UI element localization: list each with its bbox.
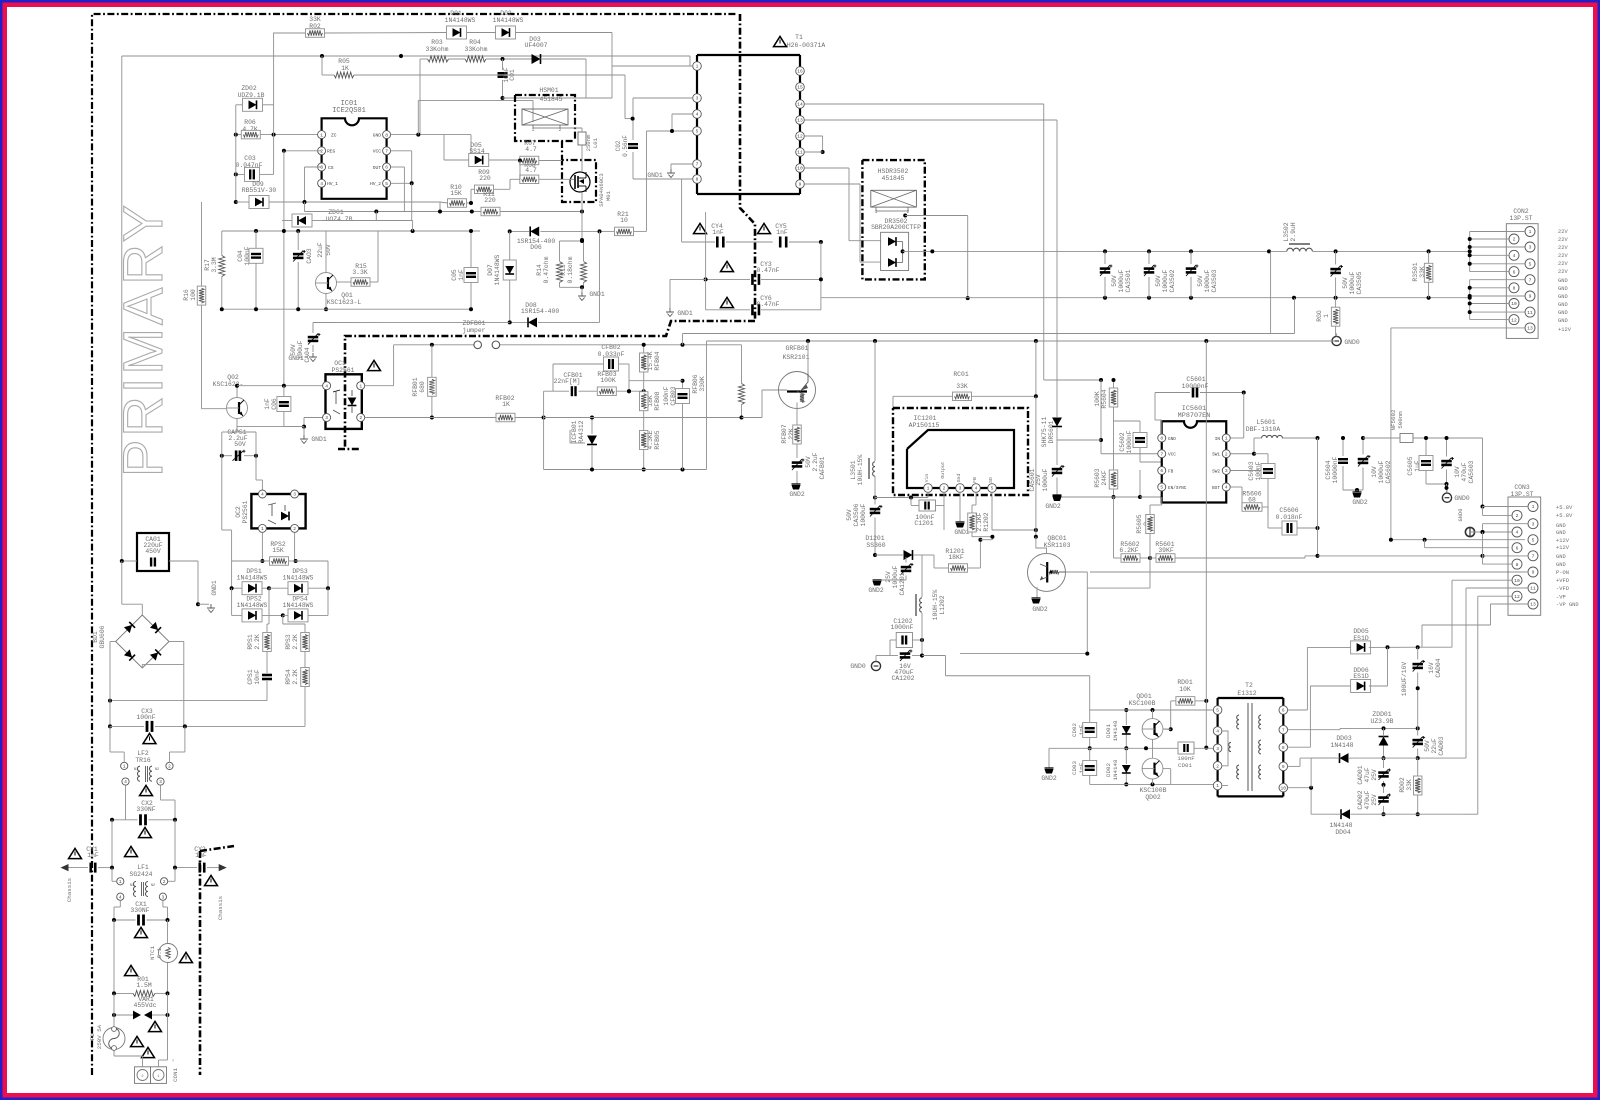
wire bridge right to GND1 (142, 642, 184, 727)
svg-text:Chassis: Chassis (66, 878, 73, 902)
wire bridge output top (122, 561, 143, 615)
ground GND1 near CY3 (666, 279, 706, 317)
svg-text:RFB06: RFB06 (692, 374, 699, 393)
ground GND0 left of CA1202 (850, 656, 890, 671)
wire CON2 GND bus (1468, 280, 1525, 320)
capacitor CAFB01 2.2uF 50V (792, 452, 826, 484)
T1 pin 10 (796, 164, 805, 173)
svg-text:15K: 15K (272, 547, 284, 554)
wire T1 pin4 stub (672, 114, 693, 131)
resistor RFB04 15.4K (639, 343, 661, 382)
chassis dashed line right (200, 846, 234, 1075)
svg-text:3.3K: 3.3K (352, 269, 368, 276)
IC5601 pin 3 SW2 (1212, 467, 1230, 475)
IC01 pin 6 OUT (373, 163, 391, 171)
svg-text:RFB07: RFB07 (781, 424, 788, 443)
svg-text:TR16: TR16 (135, 757, 151, 764)
svg-text:Q01: Q01 (341, 292, 353, 299)
svg-text:1: 1 (359, 383, 362, 389)
capacitor C5605 1uF (1407, 436, 1433, 484)
svg-text:451845: 451845 (881, 175, 904, 182)
svg-text:4: 4 (119, 894, 122, 900)
svg-text:GBU606: GBU606 (99, 625, 106, 648)
T1 pin 15 (796, 83, 805, 92)
T1 pin 9 (796, 180, 805, 189)
svg-text:CAD02: CAD02 (1357, 790, 1364, 809)
wire IC01 pin5 HV_2 (391, 181, 414, 220)
svg-text:1000uF: 1000uF (860, 503, 867, 526)
svg-text:C1201: C1201 (914, 520, 933, 527)
IC5601 pin 5 EN/SYNC (1158, 483, 1187, 491)
IC01 pin 8 GND (373, 131, 391, 139)
svg-text:HV_1: HV_1 (327, 181, 338, 187)
dual diode DR3502 SBR20A200CTFP (871, 218, 932, 271)
svg-text:5: 5 (1216, 708, 1219, 714)
wire B+ vertical x=121.8 (121, 56, 123, 561)
resistor R5603 24K (1094, 421, 1118, 499)
wire +5.8V feed to CON3 (1481, 438, 1485, 509)
svg-text:R05: R05 (338, 58, 350, 65)
resistor R5602 6.2KF (1114, 497, 1153, 562)
svg-text:6.2KF: 6.2KF (1119, 547, 1138, 554)
svg-text:1K: 1K (502, 401, 510, 408)
svg-text:16V: 16V (1428, 662, 1435, 674)
svg-text:5: 5 (385, 181, 388, 187)
wire node y=231 rail (222, 221, 480, 234)
svg-text:R5604: R5604 (1101, 389, 1108, 408)
svg-text:UF4007: UF4007 (524, 42, 547, 49)
diode DD05 ES1D (1351, 628, 1452, 654)
svg-text:10000nF: 10000nF (1182, 383, 1209, 390)
svg-text:C5601: C5601 (1186, 376, 1205, 383)
CON3 pin 3 (1528, 519, 1538, 529)
wire left rail x=235.8 (234, 105, 238, 204)
svg-text:HV_2: HV_2 (370, 181, 381, 187)
svg-text:220: 220 (484, 197, 496, 204)
isolation boundary dashed line (T1 / optocoupler) (338, 14, 755, 449)
CON2 pin 8 (1509, 283, 1519, 293)
svg-text:4: 4 (1225, 485, 1228, 491)
svg-text:R14: R14 (536, 264, 543, 276)
svg-text:CON1: CON1 (172, 1068, 179, 1082)
transistor Q01 KSC1623-L (316, 231, 362, 311)
svg-text:GND1: GND1 (589, 291, 605, 298)
capacitor CA5601 1000uF 25V (1029, 440, 1064, 495)
svg-text:3: 3 (159, 779, 162, 785)
svg-text:ZD01: ZD01 (328, 209, 344, 216)
resistor R1202 2.1KF (968, 492, 993, 536)
svg-text:+12V: +12V (1556, 538, 1570, 544)
svg-text:10V: 10V (1371, 466, 1378, 478)
svg-text:22V: 22V (1558, 237, 1568, 243)
svg-text:CAFB01: CAFB01 (819, 456, 826, 479)
svg-text:1: 1 (1529, 229, 1532, 235)
wire IN pin to C5601 rail (1231, 437, 1244, 439)
svg-text:GND: GND (1558, 318, 1568, 324)
svg-text:REG: REG (327, 149, 336, 155)
svg-text:D07: D07 (487, 264, 494, 276)
wire QBC01 base line (1066, 572, 1088, 588)
svg-text:5: 5 (1532, 537, 1535, 543)
resistor RD02 33K (1399, 758, 1422, 816)
svg-text:HSDR3502: HSDR3502 (878, 168, 909, 175)
capacitor CAD02 470uF 25V (1357, 785, 1391, 816)
svg-text:9: 9 (799, 182, 802, 188)
IC01 pin 5 HV_2 (370, 179, 391, 187)
svg-text:8: 8 (1516, 562, 1519, 568)
wire L1202 output down (922, 656, 1090, 711)
capacitor CA3502 1000uF 50V (1144, 251, 1176, 297)
capacitor C1201 100nF (911, 492, 944, 530)
svg-text:1N4148WS: 1N4148WS (494, 254, 501, 285)
warning triangle below LF2 (140, 785, 153, 795)
capacitor CFB03 100nF (627, 379, 690, 470)
svg-text:100nF: 100nF (136, 714, 155, 721)
svg-text:L3502: L3502 (1283, 222, 1290, 241)
svg-text:GND: GND (1558, 286, 1568, 292)
svg-text:50V: 50V (290, 344, 297, 356)
svg-text:16: 16 (797, 69, 803, 75)
T2 winding coils (1229, 715, 1261, 779)
IC5601 pin 6 FB (1158, 467, 1174, 475)
svg-text:CA04: CA04 (304, 347, 311, 363)
svg-text:12: 12 (1514, 594, 1520, 600)
svg-text:RFB01: RFB01 (412, 377, 419, 396)
resistor R5601 39KF (1150, 541, 1320, 573)
T1 pin 1 (693, 62, 702, 71)
diode D1201 SS360 (865, 535, 922, 560)
capacitor CA01 220uF 450V (120, 533, 200, 606)
capacitor CA5603 470uF 10V (1426, 436, 1475, 493)
CON2 pin 3 (1525, 242, 1535, 252)
wire rail y=341 (707, 339, 1336, 470)
svg-text:CA1202: CA1202 (891, 675, 914, 682)
wire VCC feed from pin14 (1044, 378, 1162, 454)
diode DR5601 SHK75-11 (1041, 414, 1062, 465)
svg-text:GND0: GND0 (1344, 339, 1360, 346)
svg-text:22V: 22V (1558, 253, 1568, 259)
wire bottom rail y=309.2 (220, 307, 473, 311)
zener ZD02 UDZ9.1B (236, 85, 274, 111)
svg-text:4: 4 (975, 486, 978, 492)
svg-text:CD02: CD02 (1071, 723, 1078, 737)
svg-text:7: 7 (1160, 451, 1163, 457)
svg-text:11: 11 (1530, 586, 1536, 592)
svg-text:22V: 22V (1558, 269, 1568, 275)
CON2 pin 2 (1509, 234, 1519, 244)
capacitor CFB02 0.033nF (553, 344, 629, 391)
svg-text:SHK75-11: SHK75-11 (1041, 416, 1048, 447)
IC5601 pin 7 VCC (1158, 450, 1177, 458)
svg-text:CAD04: CAD04 (1435, 658, 1442, 677)
svg-text:CON2: CON2 (1513, 208, 1529, 215)
wire P-ON line (1087, 571, 1525, 573)
svg-text:GND2: GND2 (868, 587, 884, 594)
resistor R05 1K (322, 56, 633, 119)
svg-text:15K: 15K (450, 190, 462, 197)
T2 pin 1 (1213, 781, 1222, 790)
wire rail x=273.6 (273, 33, 275, 175)
capacitor CY5 1nF (758, 223, 823, 298)
svg-text:1: 1 (1225, 436, 1228, 442)
resistor RFB08 18K (639, 382, 661, 420)
diode DPS2 1N4148WS (232, 588, 285, 622)
svg-text:DD05: DD05 (1353, 628, 1369, 635)
svg-text:33K: 33K (956, 383, 968, 390)
T1 pin 7 (693, 160, 702, 169)
resistor RPS4 2.2K (185, 668, 309, 727)
capacitor CA3501 1000uF 50V (1100, 251, 1132, 297)
svg-text:R04: R04 (469, 39, 481, 46)
svg-text:GND0: GND0 (1458, 509, 1464, 522)
transistor QD01 KSC100B (1129, 693, 1163, 739)
svg-text:50V: 50V (805, 456, 812, 468)
regulator IC1201 AP150115 dashed box (893, 408, 1028, 495)
capacitor CFB01 22nF[M] (544, 372, 598, 418)
wire OC2 pin1 down (260, 533, 264, 563)
svg-text:13: 13 (1527, 326, 1533, 332)
T2 pin 4 (1213, 727, 1222, 736)
svg-text:50V: 50V (1342, 277, 1349, 289)
svg-text:C04: C04 (237, 250, 244, 262)
svg-text:4: 4 (320, 181, 323, 187)
svg-text:22V: 22V (1558, 229, 1568, 235)
svg-text:1000nF: 1000nF (890, 624, 913, 631)
inductor L3501 10UH-15% (850, 454, 875, 497)
svg-text:1nF: 1nF (264, 398, 271, 410)
capacitor C01 10nF (498, 59, 517, 100)
svg-text:24KF: 24KF (1101, 470, 1108, 486)
svg-text:R3501: R3501 (1412, 262, 1419, 281)
svg-text:SD: SD (988, 477, 994, 483)
svg-text:VCC: VCC (1168, 453, 1176, 458)
IC5601 pin 2 SW1 (1212, 450, 1230, 458)
svg-text:CA1201: CA1201 (899, 572, 906, 595)
svg-text:10: 10 (620, 217, 628, 224)
resistor RPS1 2.2K (247, 588, 271, 671)
svg-text:10nF: 10nF (254, 669, 261, 685)
svg-text:GND: GND (1558, 302, 1568, 308)
svg-text:-VFD: -VFD (1556, 586, 1569, 592)
svg-text:2: 2 (163, 879, 166, 885)
wire QD top rail y=710 (1090, 708, 1214, 712)
svg-text:1N4148WS: 1N4148WS (283, 575, 314, 582)
svg-text:R13: R13 (560, 264, 567, 276)
svg-text:D02: D02 (500, 10, 512, 17)
wire T1 pin9 to rectifier (804, 184, 880, 262)
svg-text:QBC01: QBC01 (1047, 535, 1066, 542)
diode D08 1SR154-400 (508, 302, 600, 327)
svg-text:SPA04N60C3: SPA04N60C3 (598, 173, 605, 207)
svg-text:2: 2 (1225, 451, 1228, 457)
svg-text:UOZ4.7B: UOZ4.7B (326, 216, 353, 223)
warning triangle left (125, 965, 138, 975)
resistor R16 100 (183, 202, 226, 409)
svg-text:0.018nF: 0.018nF (1276, 514, 1303, 521)
svg-text:Q02: Q02 (227, 374, 239, 381)
svg-text:ZC: ZC (331, 133, 337, 139)
warning triangle below CX2 left (139, 827, 152, 837)
diode D07 1N4148WS (487, 231, 516, 322)
resistor R09 220 (471, 169, 510, 203)
svg-text:MP8707EN: MP8707EN (1178, 412, 1211, 420)
CON3 voltage labels (1556, 505, 1579, 608)
svg-text:RC01: RC01 (953, 371, 969, 378)
T1 pin 13 (796, 116, 805, 125)
svg-text:7: 7 (1282, 727, 1285, 733)
svg-text:0.47nF: 0.47nF (756, 267, 779, 274)
svg-text:GND: GND (1556, 530, 1566, 536)
capacitor CY3 0.47nF (704, 212, 823, 285)
svg-text:455Vdc: 455Vdc (133, 1002, 156, 1009)
svg-text:DBF-1310A: DBF-1310A (1246, 426, 1281, 433)
svg-text:100nF: 100nF (663, 386, 670, 405)
ground GND1 under R13 (578, 287, 605, 300)
wire IC01 pin8 GND line (391, 100, 533, 155)
svg-text:2: 2 (293, 526, 296, 532)
CON3 pin 9 (1528, 567, 1538, 577)
CON3 pin 4 (1512, 527, 1522, 537)
svg-text:450V: 450V (145, 548, 161, 555)
IC01 pin 4 HV_1 (318, 179, 339, 187)
svg-text:33K: 33K (309, 16, 321, 23)
capacitor CA1202 470uF 16V (890, 650, 924, 683)
svg-text:SW1: SW1 (1212, 453, 1220, 458)
svg-text:T2: T2 (1245, 682, 1253, 689)
svg-text:100K: 100K (600, 377, 616, 384)
capacitor C1202 1000nF (890, 618, 924, 658)
svg-text:1N4148WS: 1N4148WS (237, 602, 268, 609)
svg-text:15: 15 (797, 85, 803, 91)
T1 pin 4 (693, 110, 702, 119)
thermistor NTC1 5.1 (149, 944, 192, 994)
T2 pin 9 (1279, 762, 1288, 771)
MOSFET M01 symbol (570, 172, 590, 192)
svg-text:2: 2 (943, 486, 946, 492)
svg-text:GND: GND (1556, 562, 1566, 568)
svg-text:50V: 50V (1155, 275, 1162, 287)
diode D09 RB551V-30 (236, 181, 440, 212)
IC1201 inner outline (907, 430, 1014, 488)
svg-text:L1202: L1202 (939, 595, 946, 614)
svg-text:SBR20A200CTFP: SBR20A200CTFP (871, 224, 921, 231)
CON3 pin 5 (1528, 535, 1538, 545)
CON2 pin 13 (1525, 323, 1535, 333)
wire QD mid rail y=748.3 (1090, 746, 1214, 750)
svg-text:1N4148: 1N4148 (1112, 720, 1119, 741)
CON2 voltage labels (1558, 229, 1572, 333)
wire CON2 +12V pin13 (1391, 328, 1525, 540)
resistor R14 0.47ohm (536, 241, 582, 287)
line filter LF1 SG2424 (112, 864, 175, 920)
svg-text:1: 1 (1323, 314, 1330, 318)
T2 pin 7 (1279, 725, 1288, 734)
resistor R5606 68 (1231, 487, 1269, 517)
resistor R1201 18KF (922, 535, 994, 573)
svg-text:GND2: GND2 (1352, 499, 1368, 506)
ground GND0 near CON3 (1442, 486, 1469, 502)
resistor RPS2 15K (232, 541, 328, 588)
svg-text:KSR1103: KSR1103 (1044, 542, 1071, 549)
diode DD04 1N4148 (1329, 809, 1463, 836)
svg-text:SG2424: SG2424 (129, 871, 152, 878)
resistor R07 4.7 (518, 140, 562, 165)
svg-text:R03: R03 (431, 39, 443, 46)
wire T1 pin1 feed (612, 65, 693, 67)
svg-text:GND1: GND1 (311, 436, 327, 443)
svg-text:D1201: D1201 (865, 535, 884, 542)
CON3 pin 2 (1512, 510, 1522, 520)
svg-text:13: 13 (797, 118, 803, 124)
IC01 pin 1 ZC (318, 131, 337, 139)
svg-text:330NF: 330NF (136, 806, 155, 813)
capacitor CA03 22uF 50V (293, 231, 332, 309)
svg-text:25V: 25V (1035, 474, 1042, 486)
svg-text:25V: 25V (885, 571, 892, 583)
svg-text:1N4148WS: 1N4148WS (237, 575, 268, 582)
svg-text:470uF: 470uF (1461, 462, 1468, 481)
diode DPS3 1N4148WS (269, 568, 330, 595)
svg-text:GND0: GND0 (1454, 495, 1470, 502)
capacitor CX2 330NF (110, 800, 177, 868)
resistor R04 33Kohm (449, 39, 503, 62)
svg-text:DD02: DD02 (1105, 763, 1112, 777)
svg-text:1000uF: 1000uF (1349, 271, 1356, 294)
svg-text:470uF: 470uF (1364, 790, 1371, 809)
svg-text:33K: 33K (1406, 779, 1413, 791)
wire jumper line y=344.8 (394, 343, 742, 347)
svg-text:OUT: OUT (373, 165, 382, 171)
capacitor CA3503 1000uF 50V (1186, 251, 1218, 297)
svg-text:3: 3 (325, 415, 328, 421)
svg-text:CA5602: CA5602 (1385, 460, 1392, 483)
resistor R17 3.3M (204, 231, 225, 309)
svg-text:100: 100 (190, 289, 197, 301)
svg-text:1000uF: 1000uF (892, 565, 899, 588)
transistor Q02 KSC1623- (213, 374, 248, 432)
svg-text:13P.ST: 13P.ST (1509, 215, 1532, 222)
IC1201 pin 2 Output (940, 461, 949, 492)
snubber module HSM01 451845 dashed box (515, 87, 575, 141)
svg-text:3: 3 (1529, 245, 1532, 251)
capacitor CAD01 47uF 25V (1357, 758, 1391, 787)
svg-text:R5605: R5605 (1136, 514, 1143, 533)
svg-text:CPS1: CPS1 (247, 669, 254, 685)
svg-text:7: 7 (1532, 554, 1535, 560)
svg-text:1N4148WS: 1N4148WS (283, 602, 314, 609)
wire T2 pin8 to DD06 (1288, 686, 1353, 747)
T2 pin 6 (1279, 706, 1288, 715)
svg-text:1nF: 1nF (776, 229, 788, 236)
transistor GRFB01 KSR2101 (779, 341, 816, 425)
svg-text:IN: IN (1215, 437, 1221, 442)
CON2 pin 10 (1509, 299, 1519, 309)
IC1201 pin 4 FB (972, 477, 981, 492)
svg-text:E1312: E1312 (1237, 690, 1256, 697)
svg-text:50V: 50V (1424, 740, 1431, 752)
wire staircase to T2 area (960, 588, 1120, 656)
CON2 pin 12 (1509, 315, 1519, 325)
svg-text:3: 3 (293, 492, 296, 498)
svg-text:KSC100B: KSC100B (1140, 787, 1167, 794)
wire T1 pin7 + GND1 (647, 164, 692, 179)
wire GND line to CON3 pin7 (1318, 554, 1485, 558)
svg-text:50V: 50V (1197, 275, 1204, 287)
T1 pin 11 (796, 148, 805, 157)
wire Q02 collector line to OC1 pin4 (237, 384, 326, 388)
svg-text:25V: 25V (1371, 769, 1378, 781)
resistor RD01 10K (1163, 679, 1208, 731)
